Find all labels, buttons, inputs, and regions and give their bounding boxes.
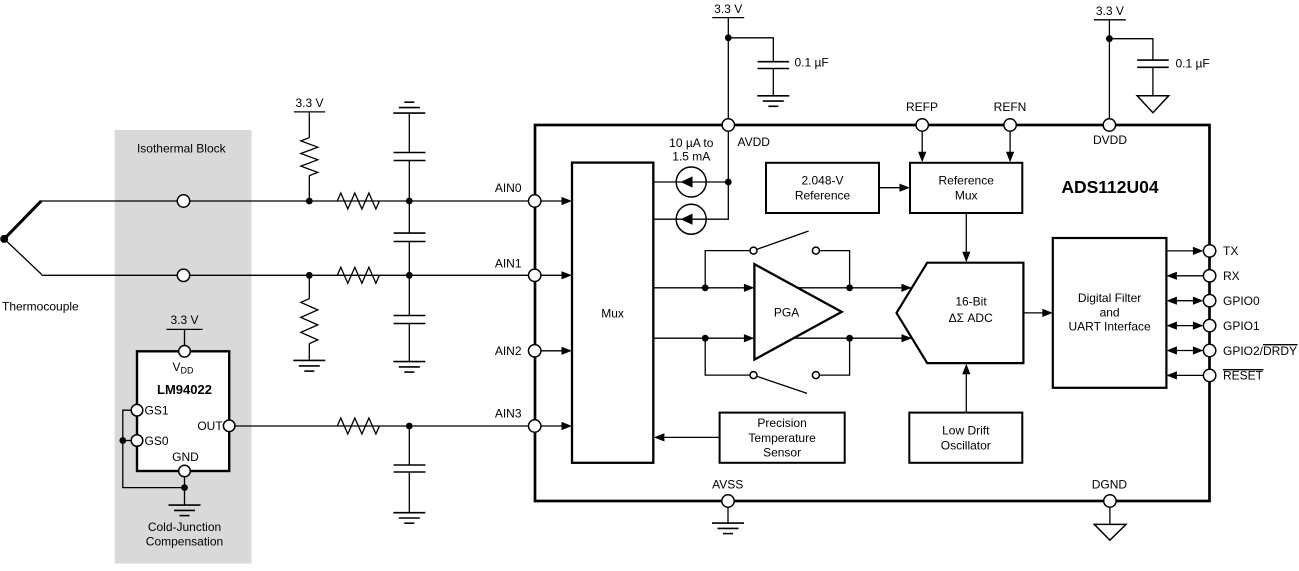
arrow PGA input N bbox=[744, 334, 755, 342]
arrow ADC input N bbox=[902, 334, 913, 342]
wire mux to PGA input N bbox=[653, 337, 746, 339]
junction PGA output N bypass bbox=[846, 335, 853, 342]
svg-text:DVDD: DVDD bbox=[1093, 133, 1127, 147]
svg-text:3.3 V: 3.3 V bbox=[170, 313, 198, 327]
wire cap C1 to AIN0 bbox=[408, 161, 410, 202]
junction GND strap bbox=[181, 484, 188, 491]
wire reference mux to ADC bbox=[962, 213, 970, 262]
capacitor 0.1 uF AVDD bbox=[758, 62, 790, 69]
wire from 3.3V to pullup resistor bbox=[308, 112, 310, 138]
adc 16-bit delta-sigma block bbox=[897, 263, 1024, 363]
label RESET with overline bbox=[1223, 369, 1264, 383]
junction AIN3 filter bbox=[406, 423, 413, 430]
ground AVSS bbox=[712, 523, 744, 534]
arrow PGA input P bbox=[744, 284, 755, 292]
resistor series AIN1 bbox=[337, 267, 379, 283]
svg-text:Mux: Mux bbox=[955, 188, 978, 202]
svg-text:GPIO1: GPIO1 bbox=[1223, 319, 1260, 333]
resistor series AIN0 bbox=[337, 193, 379, 209]
pin GND circle bbox=[179, 465, 191, 477]
wire AVDD cap to ground bbox=[772, 69, 774, 96]
svg-text:10 µA to: 10 µA to bbox=[669, 136, 714, 150]
ground AVDD cap bbox=[757, 96, 789, 107]
pin REFP bbox=[916, 119, 928, 131]
svg-text:Oscillator: Oscillator bbox=[941, 438, 991, 452]
svg-text:LM94022: LM94022 bbox=[157, 382, 212, 397]
wire 3.3V to DVDD pin bbox=[1108, 20, 1110, 119]
svg-text:ADS112U04: ADS112U04 bbox=[1061, 177, 1159, 197]
svg-text:GPIO0: GPIO0 bbox=[1223, 294, 1260, 308]
wire AIN1 to pulldown resistor bbox=[308, 275, 310, 298]
svg-text:Low Drift: Low Drift bbox=[942, 424, 990, 438]
svg-text:GS1: GS1 bbox=[145, 404, 169, 418]
junction DVDD decoupling bbox=[1106, 35, 1113, 42]
pin RESET bbox=[1166, 369, 1215, 381]
svg-text:AIN0: AIN0 bbox=[495, 181, 522, 195]
wire ADC to digital filter bbox=[1023, 309, 1052, 317]
isothermal block shading bbox=[115, 130, 252, 564]
wire ground to cap C1 bbox=[408, 113, 410, 152]
supply 3.3 V AVDD label bbox=[712, 2, 744, 18]
junction GS0 strap bbox=[119, 437, 126, 444]
pin DGND bbox=[1104, 495, 1116, 507]
svg-text:Mux: Mux bbox=[601, 306, 624, 320]
pin GS0 circle bbox=[131, 435, 143, 447]
svg-text:0.1 µF: 0.1 µF bbox=[1176, 56, 1210, 70]
wire GS0 strap bbox=[123, 440, 131, 442]
svg-text:OUT: OUT bbox=[197, 419, 223, 433]
svg-text:16-Bit: 16-Bit bbox=[955, 295, 987, 309]
wire mux to current source I2 bbox=[653, 218, 676, 220]
switch S2 bypass bottom bbox=[705, 338, 849, 393]
label GPIO2 DRDY with overline bbox=[1223, 344, 1298, 358]
ground triangle DVDD cap bbox=[1137, 96, 1169, 113]
svg-text:AIN1: AIN1 bbox=[495, 257, 522, 271]
wire pulldown to ground bbox=[308, 344, 310, 361]
wire mux to PGA input P bbox=[653, 287, 746, 289]
svg-text:Temperature: Temperature bbox=[748, 431, 816, 445]
svg-text:Thermocouple: Thermocouple bbox=[2, 300, 79, 314]
arrow ADC input P bbox=[901, 284, 912, 292]
svg-text:AIN2: AIN2 bbox=[495, 344, 522, 358]
svg-text:3.3 V: 3.3 V bbox=[1096, 4, 1124, 18]
svg-text:AVSS: AVSS bbox=[712, 477, 743, 491]
pin GPIO2 DRDY bbox=[1166, 344, 1215, 356]
ground LM94022 bbox=[169, 505, 201, 515]
svg-text:PGA: PGA bbox=[774, 306, 799, 320]
junction AVDD decoupling bbox=[725, 34, 732, 41]
wire current source I1 to AVDD rail bbox=[706, 181, 728, 183]
svg-text:ΔΣ ADC: ΔΣ ADC bbox=[949, 311, 993, 325]
svg-text:GS0: GS0 bbox=[145, 434, 169, 448]
ground triangle DGND bbox=[1094, 524, 1126, 540]
thermocouple junction bbox=[0, 201, 42, 275]
pin DVDD bbox=[1103, 119, 1115, 131]
current source I1 bbox=[676, 167, 706, 197]
svg-text:Reference: Reference bbox=[939, 174, 995, 188]
wire cap C4 to ground bbox=[408, 472, 410, 513]
label Reference Mux bbox=[939, 174, 995, 203]
junction PGA output P bypass bbox=[846, 284, 853, 291]
ground pulldown bbox=[293, 360, 325, 371]
terminal circle thermocouple negative bbox=[177, 269, 189, 281]
svg-text:RESET: RESET bbox=[1223, 369, 1264, 383]
wire DGND to ground bbox=[1109, 507, 1111, 524]
reference mux block bbox=[910, 163, 1022, 213]
svg-text:Isothermal Block: Isothermal Block bbox=[137, 142, 227, 156]
junction AIN0 filter bbox=[406, 198, 413, 205]
pin GPIO0 bbox=[1166, 295, 1215, 307]
supply 3.3 V LM94022 label bbox=[167, 313, 203, 329]
ground inverted above AIN0 cap bbox=[393, 102, 425, 113]
svg-text:DGND: DGND bbox=[1092, 477, 1128, 491]
svg-text:1.5 mA: 1.5 mA bbox=[672, 150, 710, 164]
pin AIN2 bbox=[529, 345, 573, 357]
wire oscillator to ADC bbox=[962, 364, 970, 413]
label Precision Temperature Sensor bbox=[748, 416, 816, 459]
svg-text:UART Interface: UART Interface bbox=[1068, 320, 1151, 334]
wire GS1 strap bbox=[123, 410, 185, 487]
capacitor 0.1 uF DVDD bbox=[1137, 60, 1169, 67]
wire DVDD cap to ground bbox=[1152, 67, 1154, 96]
junction PGA input N bypass bbox=[702, 335, 709, 342]
pin AVSS bbox=[722, 495, 734, 507]
wire AVSS to ground bbox=[727, 507, 729, 523]
wire OUT to AIN3 bbox=[235, 425, 529, 427]
pin OUT circle bbox=[223, 420, 235, 432]
junction AVDD rail bbox=[725, 179, 732, 186]
wire PGA output P to ADC bbox=[798, 287, 904, 289]
svg-text:TX: TX bbox=[1223, 244, 1238, 258]
svg-text:Cold-Junction: Cold-Junction bbox=[148, 520, 221, 534]
svg-text:Precision: Precision bbox=[757, 416, 806, 430]
switch S1 bypass top bbox=[705, 231, 849, 288]
label 2.048-V Reference bbox=[795, 174, 851, 203]
ground cap C3 bbox=[393, 362, 425, 373]
sensor U2 LM94022 body bbox=[137, 351, 229, 471]
svg-text:0.1 µF: 0.1 µF bbox=[795, 55, 829, 69]
wire AIN1 to cap C3 bbox=[408, 275, 410, 315]
svg-text:RX: RX bbox=[1223, 269, 1240, 283]
pin AIN3 bbox=[529, 420, 573, 432]
svg-text:Sensor: Sensor bbox=[763, 446, 801, 460]
pin AVDD bbox=[722, 119, 734, 131]
svg-text:AVDD: AVDD bbox=[738, 135, 771, 149]
pin AIN0 bbox=[529, 195, 573, 207]
pin VDD circle bbox=[179, 346, 191, 358]
pin GPIO1 bbox=[1166, 319, 1215, 331]
wire 3.3V to AVDD pin bbox=[727, 18, 729, 119]
wire AIN1 signal bbox=[42, 274, 529, 276]
supply 3.3 V DVDD label bbox=[1094, 4, 1126, 20]
label Low Drift Oscillator bbox=[941, 424, 991, 453]
svg-text:REFP: REFP bbox=[906, 100, 938, 114]
reference block 2.048-V bbox=[766, 163, 879, 213]
wire to DVDD decoupling cap bbox=[1109, 39, 1153, 60]
capacitor C3 AIN1 to gnd bbox=[394, 316, 426, 324]
wire REFP to reference mux bbox=[918, 131, 926, 162]
svg-text:REFN: REFN bbox=[994, 100, 1027, 114]
wire cap C3 to ground bbox=[408, 324, 410, 362]
resistor pullup on AIN0 bbox=[301, 138, 318, 176]
junction AIN1 pulldown bbox=[306, 272, 313, 279]
svg-text:GPIO2/DRDY: GPIO2/DRDY bbox=[1223, 344, 1297, 358]
svg-text:Compensation: Compensation bbox=[146, 535, 223, 549]
wire 3.3V to VDD pin bbox=[184, 329, 186, 345]
capacitor C4 AIN3 to gnd bbox=[394, 465, 426, 472]
oscillator block low drift bbox=[909, 413, 1022, 463]
wire PGA output N to ADC bbox=[794, 337, 904, 339]
terminal circle thermocouple positive bbox=[177, 195, 189, 207]
current source I2 bbox=[676, 204, 706, 234]
junction PGA input P bypass bbox=[702, 284, 709, 291]
temperature sensor block bbox=[720, 413, 845, 463]
mux block bbox=[572, 163, 653, 463]
junction AIN1 filter bbox=[406, 272, 413, 279]
wire to AVDD decoupling cap bbox=[728, 38, 773, 62]
wire mux to current source I1 bbox=[653, 181, 676, 183]
capacitor C1 AIN0 to gnd bbox=[394, 153, 426, 161]
resistor pulldown on AIN1 bbox=[301, 299, 318, 344]
pin GS1 circle bbox=[131, 404, 143, 416]
pin AIN1 bbox=[529, 269, 573, 281]
wire cap C2 to AIN1 bbox=[408, 242, 410, 276]
pin RX bbox=[1166, 270, 1215, 282]
svg-text:2.048-V: 2.048-V bbox=[801, 174, 843, 188]
wire AIN0 signal bbox=[41, 200, 529, 202]
svg-text:AIN3: AIN3 bbox=[495, 406, 522, 420]
ground cap C4 bbox=[393, 513, 425, 524]
svg-text:GND: GND bbox=[172, 450, 199, 464]
wire pullup to AIN0 bbox=[308, 176, 310, 201]
resistor series AIN3 bbox=[337, 418, 379, 434]
op-amp PGA bbox=[754, 264, 841, 360]
pin TX bbox=[1166, 245, 1215, 257]
wire reference to reference mux bbox=[879, 184, 910, 192]
junction AIN0 pullup bbox=[306, 198, 313, 205]
wire GND pin down bbox=[184, 477, 186, 505]
capacitor C2 differential bbox=[394, 233, 426, 241]
svg-text:Reference: Reference bbox=[795, 188, 851, 202]
wire AIN3 to cap C4 bbox=[408, 426, 410, 465]
svg-text:Digital Filter: Digital Filter bbox=[1078, 291, 1141, 305]
label 10 uA to 1.5 mA bbox=[669, 136, 714, 164]
label Digital Filter and UART Interface bbox=[1068, 291, 1151, 333]
svg-text:3.3 V: 3.3 V bbox=[714, 2, 742, 16]
wire AIN0 to cap C2 bbox=[408, 201, 410, 233]
supply 3.3 V pullup label bbox=[294, 96, 325, 112]
wire AVDD pin down to current sources bbox=[706, 131, 728, 219]
pin REFN bbox=[1004, 119, 1016, 131]
svg-text:and: and bbox=[1100, 305, 1120, 319]
svg-text:3.3 V: 3.3 V bbox=[295, 96, 323, 110]
wire REFN to reference mux bbox=[1006, 131, 1014, 162]
digital filter block bbox=[1053, 238, 1167, 388]
chip U1 ADS112U04 outline bbox=[535, 125, 1210, 501]
wire temperature sensor to mux bbox=[654, 433, 720, 441]
